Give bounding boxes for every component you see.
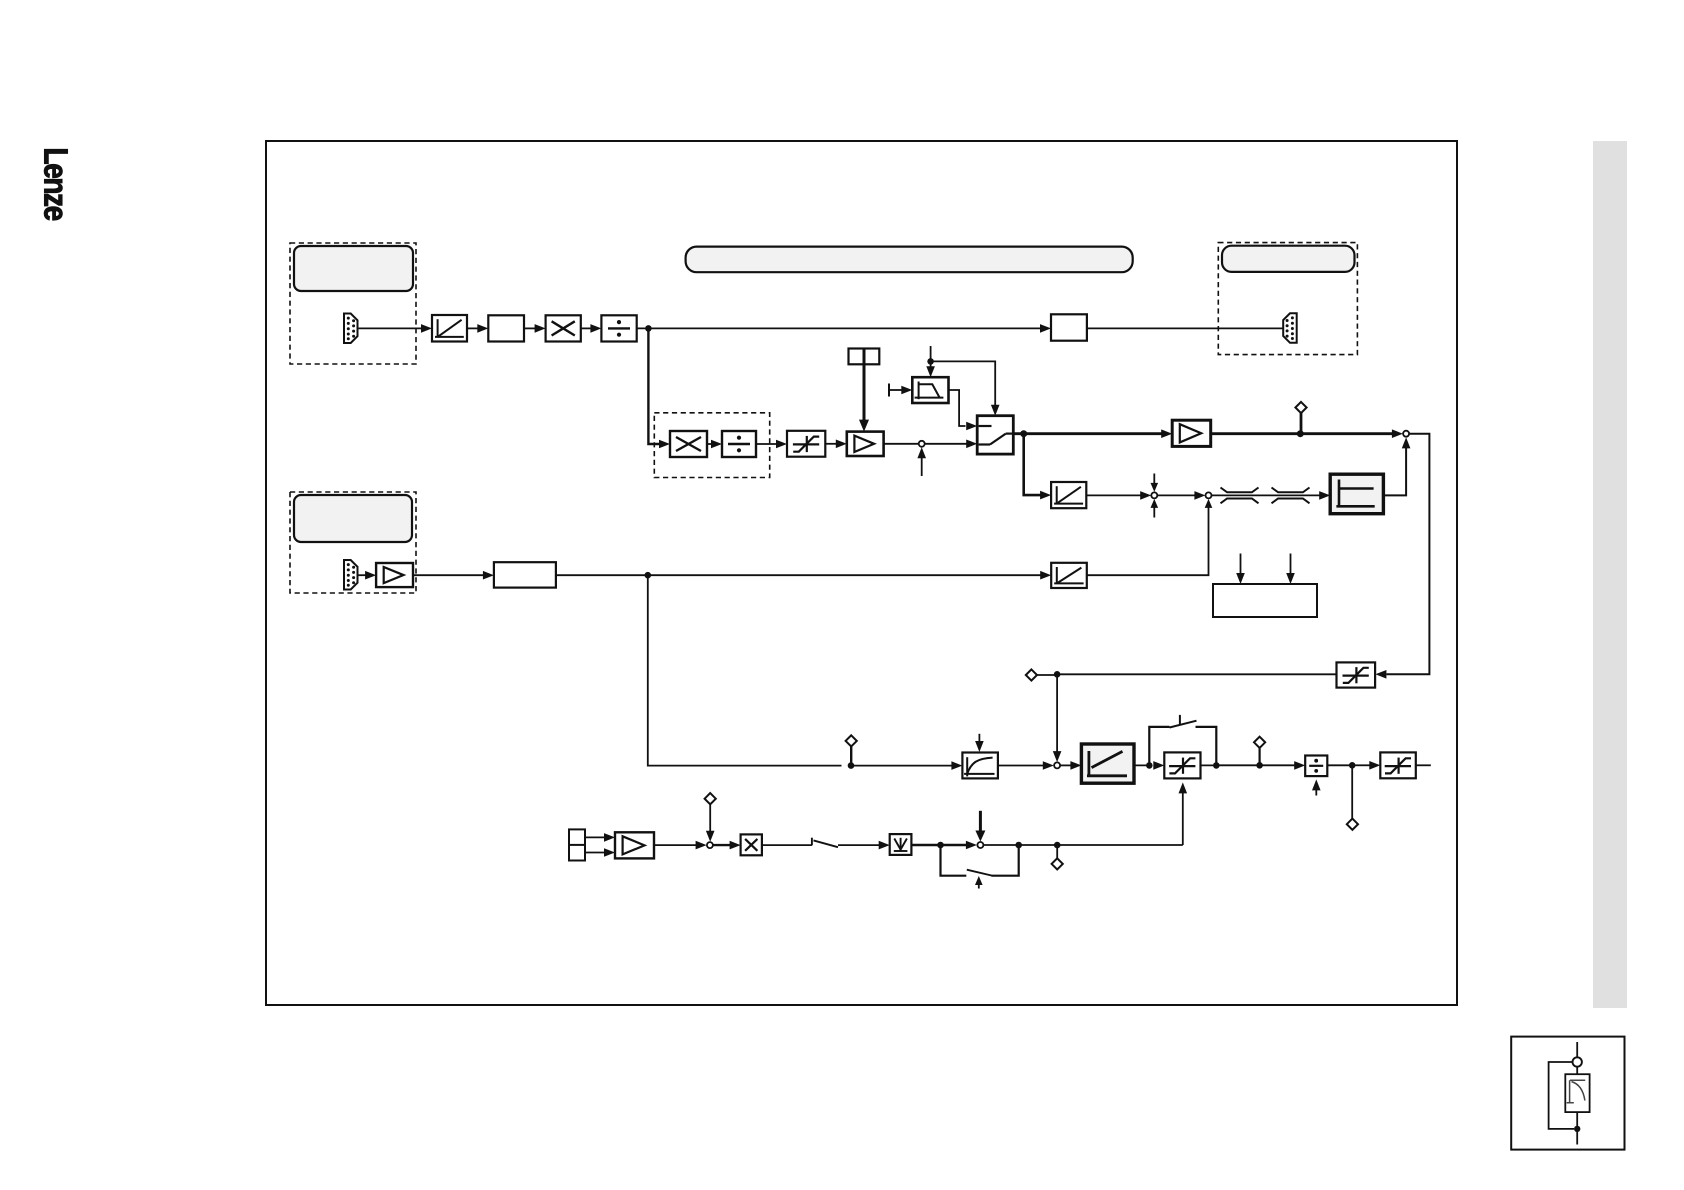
wire RFG out	[1134, 764, 1152, 766]
wire to X5	[1087, 327, 1284, 329]
node J (ramp input circle)	[1054, 762, 1060, 768]
wire	[707, 440, 722, 449]
legend wire bottom	[1576, 1132, 1578, 1145]
wire to C0425	[413, 571, 494, 580]
node G (add circle)	[1206, 492, 1212, 498]
block C0050 (display)	[1051, 314, 1087, 340]
dashed box X5 (monitor output)	[1218, 243, 1357, 355]
wire divide3 to node N	[1327, 764, 1355, 766]
arrow into divide 3	[1294, 761, 1305, 770]
block limiter 2 (feedback)	[1337, 662, 1376, 687]
wire to PT1 block	[851, 761, 962, 770]
node H (act-value branch)	[645, 572, 652, 579]
wire node B to switch	[925, 440, 978, 449]
block X-mult 3 (small)	[741, 834, 762, 855]
legend wire top	[1576, 1042, 1578, 1057]
legend wire	[1576, 1112, 1578, 1126]
switch S2 (open contact)	[812, 838, 838, 848]
gray sidebar	[1593, 141, 1627, 1008]
bold param arrow into node Q	[975, 811, 985, 842]
connector X2 (DB9)	[344, 560, 358, 590]
disconnect symbol 2	[1272, 488, 1310, 504]
title pill (function block header)	[686, 247, 1133, 273]
dashed box X2 (master frequency input)	[290, 492, 416, 593]
node L	[1213, 762, 1220, 769]
connector X5 (DB9 mirrored)	[1283, 313, 1297, 342]
connector X1 (DB9)	[344, 314, 358, 343]
bypass with switch S3 below	[941, 845, 1019, 876]
block C0034 (input characteristic)	[432, 315, 467, 342]
legend inner block	[1565, 1074, 1589, 1112]
diamond tap D1	[1295, 402, 1306, 434]
block divide 3 (small)	[1305, 756, 1327, 777]
node A (setpoint branch)	[645, 325, 652, 332]
diamond tap D5 with arrow into node O	[705, 793, 716, 842]
block X-mult (gain)	[546, 315, 581, 341]
node I	[848, 762, 855, 769]
wire X2 to amp	[358, 571, 377, 580]
block min selector	[890, 834, 912, 855]
node C (main speed line)	[1013, 429, 1172, 438]
wire through disconnects	[1212, 494, 1321, 496]
block keypad (two-cell)	[849, 349, 880, 365]
wire node E down	[1053, 674, 1062, 762]
label plate X2	[294, 495, 412, 542]
block C0425 (freq norm)	[494, 562, 556, 587]
block divide 2	[722, 431, 756, 457]
wire min to node P (bold)	[911, 841, 977, 850]
block C0026 (offset char)	[1051, 482, 1086, 508]
wire node Q to riser	[983, 842, 1182, 849]
wire keypad down to amplifier	[859, 364, 869, 431]
legend wire	[1576, 1067, 1578, 1075]
param arrow at S3	[975, 876, 983, 889]
wire decel ramp to switch	[949, 390, 978, 430]
node F (clamp circle)	[1151, 492, 1157, 498]
svg-text:Lenze: Lenze	[37, 148, 75, 222]
wire limiter3 to node L	[1201, 764, 1220, 766]
wire to clamp node	[1086, 491, 1151, 500]
node O (circle)	[707, 842, 713, 848]
wire hold block up to node D	[1383, 437, 1410, 495]
wire	[467, 324, 488, 333]
wire X1 to C0046	[358, 324, 433, 333]
dashed box X1 (analog setpoint input)	[290, 243, 416, 364]
wire limiter2 to node E	[1057, 673, 1336, 675]
riser from C0051 row	[1087, 499, 1213, 575]
wire to node G	[1157, 491, 1205, 500]
arrow into hold block	[1319, 491, 1330, 500]
node N	[1349, 762, 1356, 769]
node B (summing circle)	[919, 441, 925, 447]
wire to switch S2	[762, 844, 812, 846]
switch S1 (setpoint changeover)	[977, 416, 1013, 454]
wire node D to feedback limiter	[1375, 434, 1429, 679]
block amplifier 4	[615, 832, 654, 858]
terminal arrows	[585, 833, 615, 857]
param arrow into node B	[917, 447, 926, 476]
wire C0425 to C0051 bus	[556, 571, 1051, 580]
block n-set hold (thick)	[1330, 474, 1383, 514]
param arrow into PT1 top	[975, 734, 984, 752]
block monitor rect with two param arrows	[1213, 554, 1317, 618]
block RFG ramp generator (thick)	[1081, 744, 1134, 783]
wire node H down and right	[648, 575, 842, 765]
legend decel glyph	[1567, 1080, 1586, 1103]
wire node L to node M	[1216, 764, 1296, 766]
arrow into limiter 3	[1153, 761, 1164, 770]
block limiter 3	[1164, 752, 1200, 778]
wire PT1 to node J	[998, 761, 1054, 770]
disconnect symbol 1	[1221, 488, 1259, 504]
node Q (circle)	[977, 842, 983, 848]
wire main bold to node D	[1211, 429, 1403, 438]
block amplifier 3 (input)	[376, 563, 413, 587]
wire limiter4 out	[1416, 764, 1431, 766]
wire node O to X-mult3	[713, 841, 741, 850]
diamond tap D4 below node N	[1347, 765, 1358, 830]
node D (MCTRL input circle)	[1403, 431, 1409, 437]
block C0105 (decel ramp)	[912, 377, 948, 403]
wire	[825, 440, 847, 449]
wire	[524, 324, 546, 333]
wire node J to RFG	[1060, 761, 1081, 770]
diamond tap D7	[846, 735, 857, 765]
block X-mult 2	[670, 431, 707, 457]
wire amp to summing node	[884, 443, 919, 445]
clamp arrows at node F	[1151, 474, 1159, 518]
block amplifier 2 (main)	[1172, 420, 1211, 446]
wire S2 to min block	[838, 841, 890, 850]
terminal block X3	[569, 829, 585, 860]
arrow into limiter 4	[1355, 761, 1380, 770]
wire setpoint bus	[637, 324, 1051, 333]
wire QSP control from top	[926, 346, 999, 416]
const input marker	[889, 384, 912, 397]
main diagram frame	[266, 141, 1457, 1005]
block divide (normalize)	[601, 315, 636, 341]
diamond tap D2	[1026, 669, 1057, 680]
legend icon box	[1511, 1037, 1624, 1150]
label plate X5	[1222, 246, 1355, 272]
block amplifier 1	[847, 432, 884, 456]
node K	[1146, 762, 1153, 769]
block limiter 1	[787, 431, 825, 457]
dashed box (scaling group)	[654, 413, 769, 478]
legend bypass wire	[1549, 1062, 1574, 1129]
riser into limiter 3 bottom	[1179, 782, 1188, 845]
wire bold branch to C0026	[1024, 434, 1051, 500]
label plate X1	[294, 246, 413, 291]
node E	[1054, 671, 1061, 678]
param arrow into divide3 bottom	[1312, 779, 1321, 795]
block limiter 4	[1380, 752, 1416, 778]
bypass with switch over limiter 3	[1149, 715, 1216, 766]
diamond tap D6 below	[1052, 845, 1063, 869]
wire	[581, 324, 602, 333]
node M	[1256, 762, 1263, 769]
block C0046 (setpoint)	[488, 315, 524, 341]
legend open circle	[1573, 1057, 1582, 1066]
wire branch down to mult/div	[648, 328, 670, 448]
legend junction dot	[1574, 1126, 1580, 1132]
wire amp4 to node O	[654, 841, 707, 850]
diamond tap D3	[1254, 737, 1265, 766]
block C0220 (PT1 filter)	[962, 753, 998, 779]
wire	[756, 440, 787, 449]
block C0051 (act characteristic)	[1051, 563, 1087, 588]
